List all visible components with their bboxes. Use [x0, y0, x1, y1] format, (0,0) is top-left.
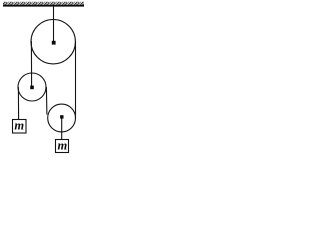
- svg-text:m: m: [58, 138, 68, 152]
- svg-text:m: m: [14, 118, 24, 132]
